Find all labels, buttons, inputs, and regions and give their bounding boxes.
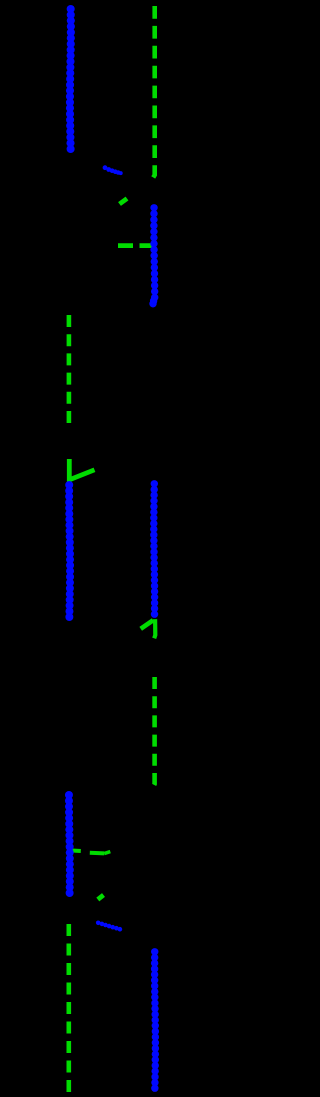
wire: green dashed route G4 (left vertical, y 315-423) [67, 315, 72, 424]
node: green corner arrow G6 (bent mark at y~625) [141, 619, 156, 638]
wire: green dashed route G8 (horizontal dashes + arrow tip, y~851) [70, 850, 111, 853]
wire: blue dotted route B5 (right vertical, y 480-618) [150, 480, 158, 618]
wire: blue dotted route B3 (right vertical, y 204-307) [149, 204, 158, 307]
wire: green dashed route G3 (horizontal, y~245) [118, 243, 157, 248]
wire: blue dotted route B4 (left vertical, y 481-621) [65, 481, 74, 621]
wire: green dashed route G1 (right vertical, top) [153, 6, 155, 179]
wire: blue dotted route B6 (left vertical, y 791-897) [65, 791, 74, 897]
wire: green dashed route G7 (right vertical, y 677-787) [153, 677, 155, 788]
wire: green dashed route G10 (left vertical, y 924-1093) [67, 924, 72, 1094]
node: green corner arrow G5 (checkmark at y~470) [69, 459, 94, 480]
wire: blue dotted route B8 (right vertical, y 948-1092) [151, 948, 159, 1092]
wire: green dash G2 (small diagonal, y~200) [120, 199, 128, 205]
wire: blue thin dotted connector B7 (diagonal, y~925) [96, 921, 122, 932]
map background [0, 0, 192, 1097]
wire: blue dotted route B1 (left vertical, top) [66, 5, 75, 153]
wire: green dash G9 (small diagonal, y~897) [98, 895, 104, 900]
wire: blue thin dotted connector B2 (diagonal, y~170) [103, 165, 123, 175]
